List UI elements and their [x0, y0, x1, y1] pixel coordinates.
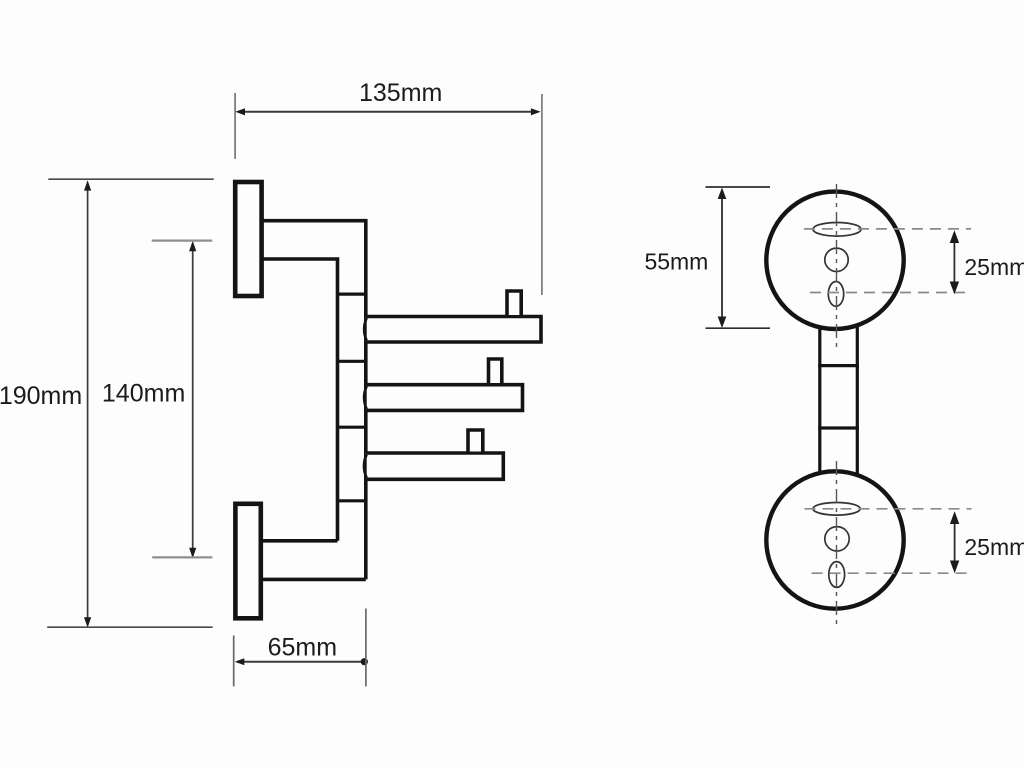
dimension 25mm top label	[964, 254, 1024, 280]
dimension 25mm top line	[950, 230, 959, 294]
connecting column left edge	[818, 327, 821, 474]
top rosette oval hole	[828, 282, 843, 307]
top arm inner edge	[263, 259, 338, 541]
extension line bottom of 140mm	[152, 556, 212, 558]
extension line right of 65mm	[365, 609, 367, 687]
column joint line upper	[818, 364, 859, 367]
connecting column right edge	[856, 325, 859, 476]
dimension 135mm label	[359, 79, 442, 107]
extension line left of 65mm	[233, 636, 235, 687]
dimension 55mm line	[718, 188, 727, 329]
dimension 65mm line	[235, 658, 368, 665]
extension line right of 135mm	[541, 94, 543, 295]
dashed reference line top oval	[810, 292, 971, 294]
extension line left of 135mm	[234, 93, 236, 159]
dimension 140mm line	[189, 241, 196, 558]
rosette circle top (front view)	[766, 192, 903, 329]
column joint line lower	[818, 426, 859, 429]
dashed reference line bottom oval	[812, 572, 972, 574]
svg-text:25mm: 25mm	[964, 534, 1024, 560]
svg-text:140mm: 140mm	[102, 380, 185, 408]
extension line top of 140mm	[152, 240, 213, 242]
swivel joint line 2	[336, 360, 367, 363]
svg-text:135mm: 135mm	[359, 79, 442, 107]
top rosette slot hole	[813, 223, 861, 237]
dimension 25mm bottom line	[950, 511, 959, 573]
dimension 190mm line	[84, 180, 91, 627]
bottom rosette oval hole	[829, 562, 845, 588]
extension line top of 190mm	[48, 178, 213, 180]
hook arm 2 (middle)	[364, 385, 522, 411]
hook arm 3 (bottom)	[364, 453, 503, 479]
svg-text:25mm: 25mm	[964, 254, 1024, 280]
dimension 25mm bottom label	[964, 534, 1024, 560]
hook arm 3 peg	[468, 430, 483, 452]
extension line top of 55mm	[706, 186, 771, 188]
top rosette screw hole	[825, 248, 848, 271]
extension line bottom of 190mm	[47, 626, 212, 628]
dimension 190mm label	[0, 382, 82, 410]
swivel joint line 1	[336, 293, 367, 296]
dimension 55mm label	[644, 248, 708, 274]
wall plate top (side view)	[235, 182, 261, 296]
hook arm 1 (top)	[364, 317, 541, 343]
swivel joint line 4	[336, 499, 367, 502]
bottom arm lower edge	[263, 578, 366, 582]
dashed reference line top slot	[804, 228, 971, 230]
dashed reference line bottom slot	[805, 508, 972, 510]
center line lower	[836, 461, 838, 627]
rosette circle bottom (front view)	[766, 471, 903, 608]
dimension 65mm label	[268, 633, 337, 661]
svg-text:65mm: 65mm	[268, 633, 337, 661]
svg-text:55mm: 55mm	[644, 248, 708, 274]
dimension 135mm line	[235, 108, 540, 115]
top arm outer edge	[263, 221, 366, 580]
bottom rosette screw hole	[825, 527, 849, 551]
swivel joint line 3	[336, 426, 367, 429]
dimension 140mm label	[102, 380, 185, 408]
bottom arm upper edge	[263, 539, 338, 543]
center line upper	[836, 184, 838, 348]
hook arm 1 peg	[507, 291, 521, 315]
wall plate bottom (side view)	[235, 504, 260, 619]
extension line bottom of 55mm	[706, 327, 771, 329]
bottom rosette slot hole	[813, 503, 860, 516]
hook arm 2 peg	[489, 359, 502, 383]
svg-text:190mm: 190mm	[0, 382, 82, 410]
